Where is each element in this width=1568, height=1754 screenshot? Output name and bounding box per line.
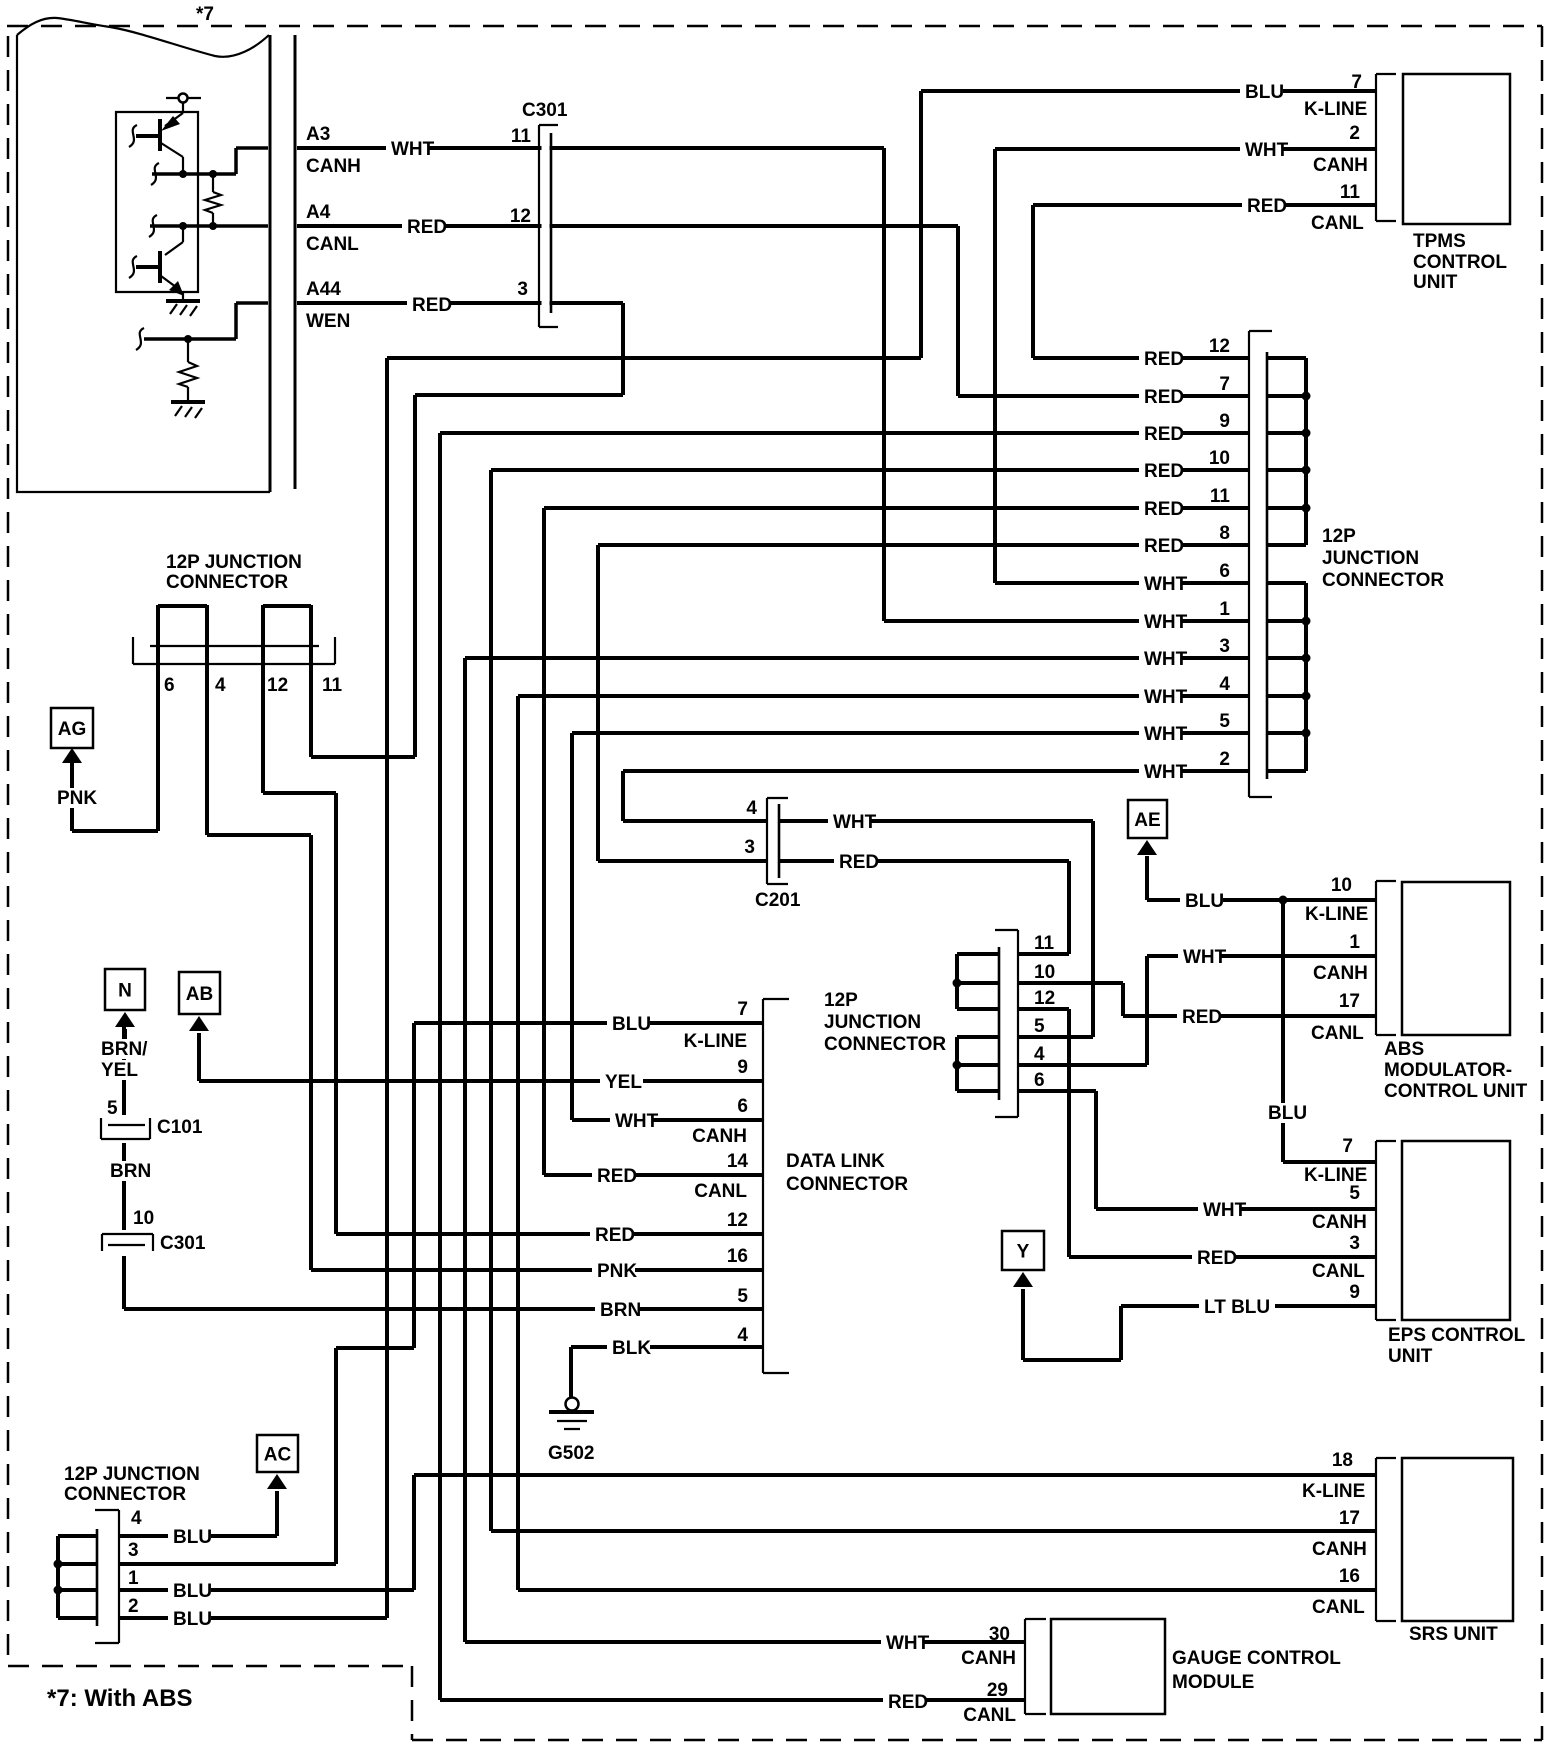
- svg-text:RED: RED: [1144, 424, 1184, 445]
- svg-text:2: 2: [1349, 123, 1360, 144]
- svg-text:30: 30: [989, 1624, 1010, 1645]
- svg-text:EPS CONTROL: EPS CONTROL: [1388, 1325, 1526, 1346]
- svg-text:4: 4: [1034, 1044, 1045, 1065]
- svg-text:1: 1: [1219, 599, 1230, 620]
- svg-text:3: 3: [517, 279, 528, 300]
- svg-text:A44: A44: [306, 279, 341, 300]
- svg-text:BRN: BRN: [110, 1161, 151, 1182]
- svg-text:6: 6: [1034, 1070, 1045, 1091]
- svg-text:BLU: BLU: [173, 1609, 212, 1630]
- svg-text:K-LINE: K-LINE: [1305, 904, 1368, 925]
- svg-text:RED: RED: [597, 1166, 637, 1187]
- svg-text:10: 10: [1034, 962, 1055, 983]
- svg-text:10: 10: [1331, 875, 1352, 896]
- svg-text:5: 5: [1349, 1183, 1360, 1204]
- svg-text:MODULE: MODULE: [1172, 1672, 1254, 1693]
- svg-text:TPMS: TPMS: [1413, 231, 1466, 252]
- svg-text:AG: AG: [58, 719, 87, 740]
- svg-text:7: 7: [737, 999, 748, 1020]
- svg-text:RED: RED: [1144, 387, 1184, 408]
- svg-text:BLK: BLK: [612, 1338, 651, 1359]
- svg-text:DATA LINK: DATA LINK: [786, 1151, 885, 1172]
- svg-text:4: 4: [131, 1508, 142, 1529]
- svg-text:BRN: BRN: [600, 1300, 641, 1321]
- svg-text:CANH: CANH: [1313, 963, 1368, 984]
- svg-text:CANL: CANL: [1311, 1023, 1364, 1044]
- svg-text:8: 8: [1219, 523, 1230, 544]
- svg-text:BLU: BLU: [1185, 891, 1224, 912]
- svg-text:K-LINE: K-LINE: [1302, 1481, 1365, 1502]
- svg-text:CONNECTOR: CONNECTOR: [64, 1484, 186, 1505]
- svg-text:WHT: WHT: [391, 139, 435, 160]
- svg-text:RED: RED: [412, 295, 452, 316]
- svg-text:3: 3: [1349, 1233, 1360, 1254]
- svg-text:AE: AE: [1134, 810, 1160, 831]
- svg-text:CANL: CANL: [694, 1181, 747, 1202]
- svg-text:A4: A4: [306, 202, 331, 223]
- svg-text:12P: 12P: [824, 990, 858, 1011]
- svg-text:WHT: WHT: [1144, 574, 1188, 595]
- svg-text:RED: RED: [1144, 536, 1184, 557]
- svg-text:CANL: CANL: [963, 1705, 1016, 1726]
- svg-text:5: 5: [1219, 711, 1230, 732]
- svg-text:CONTROL UNIT: CONTROL UNIT: [1384, 1081, 1528, 1102]
- svg-text:7: 7: [1351, 72, 1362, 93]
- svg-text:6: 6: [737, 1096, 748, 1117]
- svg-text:16: 16: [727, 1246, 748, 1267]
- svg-text:RED: RED: [1144, 499, 1184, 520]
- svg-text:12: 12: [727, 1210, 748, 1231]
- svg-text:6: 6: [1219, 561, 1230, 582]
- svg-text:GAUGE CONTROL: GAUGE CONTROL: [1172, 1648, 1341, 1669]
- svg-text:RED: RED: [839, 852, 879, 873]
- svg-text:18: 18: [1332, 1450, 1353, 1471]
- svg-text:17: 17: [1339, 991, 1360, 1012]
- svg-text:A3: A3: [306, 124, 330, 145]
- svg-text:WHT: WHT: [1245, 140, 1289, 161]
- svg-text:*7: *7: [196, 4, 214, 25]
- svg-text:AC: AC: [264, 1445, 292, 1466]
- svg-text:4: 4: [746, 798, 757, 819]
- svg-text:CANL: CANL: [306, 234, 359, 255]
- svg-text:1: 1: [1349, 932, 1360, 953]
- svg-text:CONTROL: CONTROL: [1413, 252, 1507, 273]
- svg-text:3: 3: [744, 837, 755, 858]
- svg-text:CANH: CANH: [692, 1126, 747, 1147]
- svg-text:K-LINE: K-LINE: [684, 1031, 747, 1052]
- svg-text:WHT: WHT: [1144, 612, 1188, 633]
- svg-text:11: 11: [1340, 182, 1361, 203]
- svg-text:RED: RED: [595, 1225, 635, 1246]
- svg-text:29: 29: [987, 1680, 1008, 1701]
- svg-text:PNK: PNK: [57, 788, 97, 809]
- svg-text:LT BLU: LT BLU: [1204, 1297, 1270, 1318]
- svg-text:17: 17: [1339, 1508, 1360, 1529]
- svg-text:9: 9: [1349, 1282, 1360, 1303]
- svg-text:WHT: WHT: [886, 1633, 930, 1654]
- svg-text:ABS: ABS: [1384, 1039, 1424, 1060]
- svg-text:RED: RED: [1197, 1248, 1237, 1269]
- svg-text:CANH: CANH: [961, 1648, 1016, 1669]
- svg-text:BLU: BLU: [1245, 82, 1284, 103]
- svg-text:12: 12: [1209, 336, 1230, 357]
- svg-text:CANH: CANH: [1312, 1212, 1367, 1233]
- svg-text:10: 10: [133, 1208, 154, 1229]
- svg-text:11: 11: [1034, 933, 1055, 954]
- svg-text:RED: RED: [1144, 349, 1184, 370]
- svg-text:CANL: CANL: [1312, 1597, 1365, 1618]
- svg-text:12P JUNCTION: 12P JUNCTION: [166, 552, 302, 573]
- svg-text:RED: RED: [888, 1692, 928, 1713]
- svg-text:WHT: WHT: [833, 812, 877, 833]
- svg-text:4: 4: [737, 1325, 748, 1346]
- svg-text:2: 2: [128, 1596, 139, 1617]
- svg-text:CANH: CANH: [306, 156, 361, 177]
- svg-text:Y: Y: [1017, 1242, 1030, 1263]
- svg-text:C301: C301: [160, 1233, 206, 1254]
- svg-text:6: 6: [164, 675, 175, 696]
- svg-text:SRS UNIT: SRS UNIT: [1409, 1624, 1498, 1645]
- svg-text:CANH: CANH: [1312, 1539, 1367, 1560]
- svg-text:12P JUNCTION: 12P JUNCTION: [64, 1464, 200, 1485]
- svg-text:5: 5: [1034, 1016, 1045, 1037]
- svg-text:PNK: PNK: [597, 1261, 637, 1282]
- svg-text:16: 16: [1339, 1566, 1360, 1587]
- svg-text:RED: RED: [407, 217, 447, 238]
- svg-text:N: N: [118, 981, 132, 1002]
- svg-text:2: 2: [1219, 749, 1230, 770]
- svg-text:12: 12: [267, 675, 288, 696]
- svg-text:11: 11: [1210, 486, 1231, 507]
- svg-text:CONNECTOR: CONNECTOR: [824, 1034, 946, 1055]
- svg-text:CONNECTOR: CONNECTOR: [786, 1174, 908, 1195]
- svg-text:1: 1: [128, 1568, 139, 1589]
- svg-text:BRN/: BRN/: [101, 1039, 148, 1060]
- svg-text:14: 14: [727, 1151, 749, 1172]
- svg-text:CANL: CANL: [1312, 1261, 1365, 1282]
- svg-text:9: 9: [737, 1057, 748, 1078]
- svg-text:WHT: WHT: [1144, 649, 1188, 670]
- svg-text:YEL: YEL: [605, 1072, 642, 1093]
- svg-text:CONNECTOR: CONNECTOR: [166, 572, 288, 593]
- svg-text:WHT: WHT: [1144, 687, 1188, 708]
- svg-text:7: 7: [1219, 374, 1230, 395]
- svg-text:UNIT: UNIT: [1413, 272, 1458, 293]
- svg-text:K-LINE: K-LINE: [1304, 99, 1367, 120]
- svg-text:MODULATOR-: MODULATOR-: [1384, 1060, 1512, 1081]
- svg-text:5: 5: [107, 1098, 118, 1119]
- svg-text:12P: 12P: [1322, 526, 1356, 547]
- svg-text:BLU: BLU: [173, 1581, 212, 1602]
- svg-text:RED: RED: [1144, 461, 1184, 482]
- svg-text:C301: C301: [522, 100, 568, 121]
- svg-text:WHT: WHT: [1144, 762, 1188, 783]
- svg-text:*7: With ABS: *7: With ABS: [47, 1685, 193, 1712]
- svg-text:3: 3: [1219, 636, 1230, 657]
- svg-text:4: 4: [1219, 674, 1230, 695]
- svg-text:UNIT: UNIT: [1388, 1346, 1433, 1367]
- svg-text:C201: C201: [755, 890, 801, 911]
- svg-text:BLU: BLU: [173, 1527, 212, 1548]
- svg-text:WEN: WEN: [306, 311, 350, 332]
- svg-text:BLU: BLU: [1268, 1103, 1307, 1124]
- svg-text:12: 12: [510, 206, 531, 227]
- svg-text:WHT: WHT: [1144, 724, 1188, 745]
- svg-text:CANL: CANL: [1311, 213, 1364, 234]
- svg-text:RED: RED: [1247, 196, 1287, 217]
- svg-text:G502: G502: [548, 1443, 594, 1464]
- svg-text:11: 11: [511, 126, 532, 147]
- svg-text:11: 11: [322, 675, 343, 696]
- svg-text:WHT: WHT: [1183, 947, 1227, 968]
- svg-text:5: 5: [737, 1286, 748, 1307]
- svg-text:C101: C101: [157, 1117, 203, 1138]
- svg-text:JUNCTION: JUNCTION: [824, 1012, 921, 1033]
- svg-text:JUNCTION: JUNCTION: [1322, 548, 1419, 569]
- svg-text:WHT: WHT: [1203, 1200, 1247, 1221]
- svg-text:YEL: YEL: [101, 1060, 138, 1081]
- svg-text:10: 10: [1209, 448, 1230, 469]
- svg-text:AB: AB: [186, 984, 213, 1005]
- svg-text:3: 3: [128, 1540, 139, 1561]
- svg-text:4: 4: [215, 675, 226, 696]
- svg-text:CANH: CANH: [1313, 155, 1368, 176]
- svg-text:7: 7: [1342, 1136, 1353, 1157]
- svg-text:RED: RED: [1182, 1007, 1222, 1028]
- svg-text:12: 12: [1034, 988, 1055, 1009]
- svg-text:BLU: BLU: [612, 1014, 651, 1035]
- svg-text:CONNECTOR: CONNECTOR: [1322, 570, 1444, 591]
- svg-text:9: 9: [1219, 411, 1230, 432]
- svg-text:WHT: WHT: [615, 1111, 659, 1132]
